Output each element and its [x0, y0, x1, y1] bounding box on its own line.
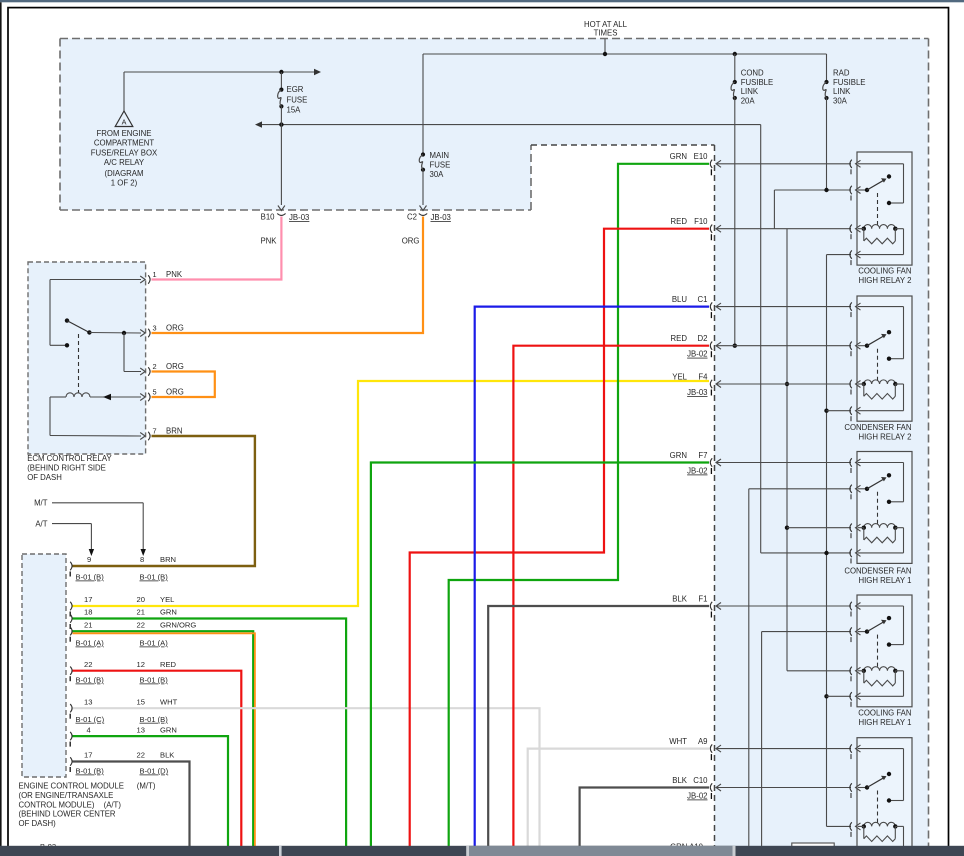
svg-text:BLK: BLK [672, 776, 688, 785]
relay COOLING FAN HIGH RELAY 1 [850, 595, 912, 727]
svg-text:30A: 30A [430, 170, 445, 179]
ECM pin row 21/22 GRN/ORG [70, 627, 72, 635]
svg-text:20: 20 [137, 595, 145, 604]
fuse COND FUSIBLE LINK 20A [734, 54, 736, 82]
svg-text:CONDENSER FAN: CONDENSER FAN [844, 423, 911, 432]
svg-text:(BEHIND LOWER CENTER: (BEHIND LOWER CENTER [19, 810, 116, 819]
connector BLU C1 at boundary [716, 306, 851, 308]
dashed border right [928, 39, 930, 847]
svg-text:CONTROL MODULE): CONTROL MODULE) [19, 800, 95, 809]
svg-text:RAD: RAD [833, 69, 850, 78]
node A triangle [123, 72, 125, 111]
svg-text:17: 17 [84, 751, 92, 760]
svg-text:22: 22 [137, 751, 145, 760]
ECM relay pin 1 [140, 276, 145, 283]
svg-text:JB-02: JB-02 [687, 792, 707, 801]
svg-text:F10: F10 [694, 217, 708, 226]
wire v3 drop from F10 row [786, 229, 788, 671]
svg-text:B-01 (D): B-01 (D) [140, 767, 169, 776]
svg-text:B10: B10 [261, 213, 276, 222]
svg-text:ORG: ORG [402, 237, 420, 246]
svg-text:8: 8 [140, 555, 144, 564]
dashed border left [59, 39, 61, 211]
svg-text:FUSE: FUSE [430, 161, 451, 170]
ECM relay pin 5 [140, 394, 145, 401]
wire distribution row [260, 124, 761, 126]
svg-text:7: 7 [153, 427, 157, 436]
svg-text:RED: RED [671, 217, 688, 226]
svg-text:A/C RELAY: A/C RELAY [104, 158, 145, 167]
svg-text:20A: 20A [741, 96, 756, 105]
harness boundary dashed top [531, 144, 715, 146]
svg-text:GRN: GRN [160, 608, 177, 617]
svg-text:GRN: GRN [670, 451, 687, 460]
ECM pin row 18/21 GRN [70, 614, 72, 622]
connector BLK C10 at boundary [716, 787, 851, 789]
svg-text:30A: 30A [833, 96, 848, 105]
fuse EGR FUSE 15A [280, 72, 282, 90]
svg-text:FROM ENGINE: FROM ENGINE [96, 129, 151, 138]
wire GRN connector F7 down [371, 463, 709, 847]
wire BLK connector C10 down [580, 788, 709, 847]
svg-text:4: 4 [87, 725, 91, 734]
svg-text:PNK: PNK [166, 270, 183, 279]
svg-text:COMPARTMENT: COMPARTMENT [94, 139, 155, 148]
wire relay2 rowD stub [827, 410, 852, 412]
svg-text:13: 13 [137, 725, 145, 734]
svg-text:COOLING FAN: COOLING FAN [858, 709, 911, 718]
wire GRN ECM 4/13 down [73, 736, 229, 846]
svg-text:21: 21 [137, 608, 145, 617]
wire v5 drop [748, 489, 750, 846]
dashed border top [60, 38, 929, 40]
relay cooling fan relay (cut) [850, 738, 912, 853]
dashed border bottom-left [60, 209, 531, 211]
dashed border cutout-left [530, 145, 532, 210]
harness boundary dashed vertical [714, 145, 716, 846]
connector YEL F4 at boundary [716, 383, 851, 385]
connector GRN F7 at boundary [716, 462, 851, 464]
connector B10 JB-03 [278, 206, 285, 211]
wire v4 coil chain [827, 254, 852, 256]
svg-text:CONDENSER FAN: CONDENSER FAN [844, 567, 911, 576]
svg-text:COND: COND [741, 69, 764, 78]
svg-text:BLK: BLK [672, 594, 688, 603]
svg-text:FUSE: FUSE [287, 95, 308, 104]
svg-text:C10: C10 [693, 776, 708, 785]
svg-text:BLU: BLU [672, 295, 688, 304]
svg-text:17: 17 [84, 595, 92, 604]
wire top feed [423, 53, 827, 55]
svg-text:A9: A9 [698, 737, 708, 746]
ECM relay pin 2 [140, 368, 145, 375]
svg-text:RED: RED [160, 660, 177, 669]
svg-text:LINK: LINK [741, 87, 759, 96]
svg-text:GRN/ORG: GRN/ORG [160, 620, 196, 629]
svg-text:B-01 (A): B-01 (A) [140, 639, 169, 648]
wire GRN/ORG ECM 21/22 down [73, 631, 254, 846]
svg-text:BRN: BRN [166, 427, 182, 436]
svg-text:5: 5 [153, 388, 157, 397]
wire RED ECM 22/12 down [73, 671, 242, 846]
svg-text:A/T: A/T [35, 520, 47, 529]
wire A/C relay feed [124, 71, 314, 73]
svg-text:RED: RED [671, 334, 688, 343]
svg-text:FUSIBLE: FUSIBLE [833, 78, 866, 87]
svg-text:3: 3 [153, 324, 157, 333]
svg-text:B-01 (B): B-01 (B) [140, 573, 169, 582]
wire v2 distribution drop [760, 125, 762, 553]
svg-text:D2: D2 [698, 334, 708, 343]
svg-text:ORG: ORG [166, 362, 184, 371]
ECM pin row 17/20 YEL [70, 602, 72, 610]
svg-text:E10: E10 [694, 152, 709, 161]
svg-text:21: 21 [84, 620, 92, 629]
svg-text:M/T: M/T [34, 499, 48, 508]
left screen edge [0, 2, 2, 846]
svg-text:ORG: ORG [166, 388, 184, 397]
svg-text:B-01 (B): B-01 (B) [140, 715, 169, 724]
svg-text:(OR ENGINE/TRANSAXLE: (OR ENGINE/TRANSAXLE [19, 791, 114, 800]
wire WHT ECM 13/15 down [73, 708, 540, 846]
ECM pin row 17/22 BLK [70, 757, 72, 765]
svg-text:GRN: GRN [670, 152, 687, 161]
svg-text:EGR: EGR [287, 85, 304, 94]
wire YEL ECM 17/20 to connector F4 [73, 381, 710, 606]
svg-text:(A/T): (A/T) [104, 800, 122, 809]
svg-text:15A: 15A [287, 106, 302, 115]
svg-text:18: 18 [84, 608, 92, 617]
wire relay4 rowD stub [827, 695, 852, 697]
svg-text:B-01 (B): B-01 (B) [76, 573, 105, 582]
fuse MAIN FUSE 30A [422, 54, 424, 155]
ECM control relay box [28, 262, 146, 454]
connector RED D2 at boundary [716, 345, 851, 347]
wire riser [604, 39, 606, 54]
svg-text:22: 22 [84, 660, 92, 669]
svg-text:2: 2 [153, 362, 157, 371]
relay CONDENSER FAN HIGH RELAY 1 [844, 452, 912, 586]
svg-text:C2: C2 [407, 213, 417, 222]
svg-text:B-01 (B): B-01 (B) [76, 767, 105, 776]
svg-text:C1: C1 [698, 295, 708, 304]
wire ORG ECM relay pin 2 to pin 5 [152, 372, 215, 398]
svg-text:FUSIBLE: FUSIBLE [741, 78, 774, 87]
ECM pin row 4/13 GRN [70, 732, 72, 740]
svg-text:(DIAGRAM: (DIAGRAM [105, 169, 144, 178]
svg-text:JB-02: JB-02 [687, 350, 707, 359]
svg-text:JB-03: JB-03 [431, 213, 451, 222]
wire BLK ECM 17/22 down [73, 762, 190, 847]
wire GRN connector E10 down-left [449, 164, 709, 846]
connector GRN E10 at boundary [716, 163, 851, 165]
svg-text:JB-03: JB-03 [687, 388, 707, 397]
svg-text:ENGINE CONTROL MODULE: ENGINE CONTROL MODULE [19, 782, 124, 791]
wire ORG C2 to ECM relay pin 3 [152, 217, 424, 334]
svg-text:F7: F7 [698, 451, 707, 460]
svg-text:WHT: WHT [669, 737, 687, 746]
svg-text:HIGH RELAY 2: HIGH RELAY 2 [858, 433, 911, 442]
ECM pin row 9/8 BRN [70, 562, 72, 570]
svg-text:1 OF 2): 1 OF 2) [111, 179, 138, 188]
svg-text:B-01 (A): B-01 (A) [76, 639, 105, 648]
svg-text:YEL: YEL [160, 595, 174, 604]
wire RED connector F10 path [410, 229, 709, 846]
svg-text:12: 12 [137, 660, 145, 669]
svg-text:LINK: LINK [833, 87, 851, 96]
svg-text:BRN: BRN [160, 555, 176, 564]
wire relay3 rowC stub [787, 527, 851, 529]
svg-text:GRN: GRN [160, 725, 177, 734]
connector C2 JB-03 [420, 206, 427, 211]
wire BLU connector C1 down [475, 307, 709, 846]
svg-text:15: 15 [137, 697, 145, 706]
svg-text:JB-02: JB-02 [687, 467, 707, 476]
svg-text:COOLING FAN: COOLING FAN [858, 267, 911, 276]
svg-text:MAIN: MAIN [430, 151, 450, 160]
bottom taskbar [0, 846, 964, 856]
wire BRN ECM relay pin 7 to ECM pins 9/8 [73, 436, 255, 566]
svg-text:PNK: PNK [260, 237, 277, 246]
wire PNK B10 to ECM relay pin 1 [152, 217, 282, 280]
svg-text:(M/T): (M/T) [137, 782, 156, 791]
partial component box cut by bar [792, 843, 834, 853]
connector RED F10 at boundary [716, 228, 851, 230]
svg-text:9: 9 [87, 555, 91, 564]
svg-text:A: A [122, 118, 127, 127]
svg-text:B-01 (C): B-01 (C) [76, 715, 105, 724]
ECM relay pin 3 [140, 330, 145, 337]
svg-text:F1: F1 [698, 594, 707, 603]
wire WHT connector A9 down [528, 749, 709, 846]
ECM pin row 13/15 WHT [70, 704, 72, 712]
svg-text:TIMES: TIMES [594, 29, 618, 38]
svg-text:JB-03: JB-03 [289, 213, 309, 222]
connector WHT A9 at boundary [716, 748, 851, 750]
svg-text:(BEHIND RIGHT SIDE: (BEHIND RIGHT SIDE [27, 464, 106, 473]
wire GRN ECM 18/21 down [73, 619, 347, 847]
svg-text:OF DASH: OF DASH [27, 473, 62, 482]
ECM pin row 22/12 RED [70, 667, 72, 675]
svg-text:HIGH RELAY 1: HIGH RELAY 1 [858, 576, 911, 585]
wire BLK connector F1 down [488, 606, 709, 846]
wire RED connector D2 down [513, 346, 709, 846]
ECM relay pin 7 [140, 433, 145, 440]
svg-text:B-01 (B): B-01 (B) [76, 676, 105, 685]
relay COOLING FAN HIGH RELAY 2 [850, 152, 912, 285]
svg-text:YEL: YEL [672, 372, 687, 381]
wire relay1 rowB feed [773, 190, 775, 229]
svg-text:WHT: WHT [160, 697, 178, 706]
ECM relay internals [50, 279, 141, 281]
fuse RAD FUSIBLE LINK 30A [826, 54, 828, 82]
window top bar [0, 0, 964, 2]
svg-text:FUSE/RELAY BOX: FUSE/RELAY BOX [91, 148, 158, 157]
connector BLK F1 at boundary [716, 605, 851, 607]
svg-text:HIGH RELAY 2: HIGH RELAY 2 [858, 276, 911, 285]
svg-text:HIGH RELAY 1: HIGH RELAY 1 [858, 718, 911, 727]
svg-text:1: 1 [153, 270, 157, 279]
svg-text:ORG: ORG [166, 324, 184, 333]
svg-text:13: 13 [84, 697, 92, 706]
svg-text:ECM CONTROL RELAY: ECM CONTROL RELAY [27, 454, 112, 463]
wire v6 drop [761, 632, 763, 846]
relay CONDENSER FAN HIGH RELAY 2 [844, 296, 912, 442]
svg-text:OF DASH): OF DASH) [19, 819, 57, 828]
svg-text:F4: F4 [698, 372, 708, 381]
svg-text:BLK: BLK [160, 751, 174, 760]
svg-text:22: 22 [137, 620, 145, 629]
svg-text:B-01 (B): B-01 (B) [140, 676, 169, 685]
engine control module box [22, 554, 66, 777]
